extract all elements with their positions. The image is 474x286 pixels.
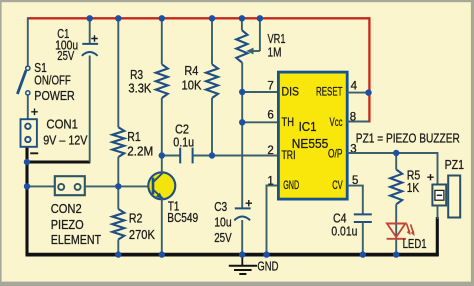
- svg-text:C3: C3: [214, 199, 227, 214]
- wire CV pin5 to C4: [347, 186, 363, 215]
- svg-text:1K: 1K: [407, 180, 420, 195]
- wire CON2 to base node: [85, 185, 119, 187]
- ground symbol GND: [229, 256, 257, 274]
- svg-text:3.3K: 3.3K: [128, 81, 151, 96]
- node TH junction: [239, 119, 245, 125]
- node CON2 junction: [24, 183, 30, 189]
- svg-text:CV: CV: [332, 178, 343, 192]
- wire R4 bottom lead to TRI node: [211, 98, 213, 156]
- potentiometer VR1 1M: [236, 30, 247, 62]
- svg-text:ELEMENT: ELEMENT: [51, 232, 102, 247]
- svg-text:25V: 25V: [214, 230, 232, 245]
- svg-text:PIEZO: PIEZO: [51, 217, 84, 232]
- wire R1 bottom lead to base node: [117, 157, 119, 186]
- wire R5 to LED1 to ground bus: [395, 204, 397, 255]
- frame border strips: [0, 0, 474, 2]
- capacitor C3 10u 25V electrolytic: [234, 200, 252, 220]
- svg-text:ON/OFF: ON/OFF: [34, 73, 71, 88]
- capacitor C2 0.1u: [161, 148, 278, 164]
- svg-text:IC1: IC1: [299, 119, 317, 134]
- svg-text:Vcc: Vcc: [330, 115, 343, 129]
- node T1 base junction: [115, 183, 121, 189]
- wire C1 top lead from +V bus: [89, 18, 91, 44]
- svg-text:CON1: CON1: [46, 117, 78, 132]
- resistor R2 270K: [112, 209, 124, 240]
- node ground bus junctions: [115, 251, 121, 257]
- svg-text:2.2M: 2.2M: [127, 143, 153, 158]
- svg-text:TRI: TRI: [282, 148, 296, 162]
- svg-text:R2: R2: [129, 210, 143, 225]
- wire C1 bottom lead: [89, 56, 91, 163]
- wire DIS pin7 row: [242, 91, 279, 93]
- resistor R5 1K: [395, 153, 397, 170]
- wire TH pin6 row: [242, 121, 279, 123]
- connector CON2 piezo element input: [55, 176, 85, 195]
- svg-text:CON2: CON2: [51, 201, 82, 216]
- svg-text:R4: R4: [184, 63, 198, 78]
- svg-text:270K: 270K: [129, 227, 155, 242]
- wire T1 collector to node: [161, 156, 163, 174]
- svg-text:1M: 1M: [268, 45, 282, 60]
- svg-text:2: 2: [267, 145, 273, 157]
- connector CON1 9V-12V battery input: [21, 109, 39, 154]
- resistor R4 10K: [206, 64, 218, 98]
- LED LED1 red: [387, 224, 415, 239]
- svg-text:BC549: BC549: [167, 210, 198, 225]
- capacitor C1 100u 25V electrolytic: [82, 35, 98, 56]
- svg-text:NE555: NE555: [292, 136, 329, 151]
- svg-text:4: 4: [351, 81, 358, 93]
- wire Vcc pin8 stub: [347, 121, 369, 123]
- wire R3 bottom lead to T1 collector node: [161, 98, 163, 156]
- wire R4 top lead from +V bus: [211, 18, 213, 64]
- svg-text:GND: GND: [283, 178, 299, 192]
- svg-text:6: 6: [267, 110, 273, 122]
- svg-text:O/P: O/P: [328, 147, 343, 161]
- node R4/C2 junction: [209, 152, 215, 158]
- wire VR1 bottom through DIS and TH nodes to C3: [241, 62, 243, 208]
- svg-text:VR1: VR1: [268, 31, 286, 46]
- svg-text:POWER: POWER: [34, 88, 75, 103]
- capacitor C4 0.01u: [354, 214, 372, 222]
- svg-text:1: 1: [267, 175, 273, 187]
- wire VR1 top lead from +V bus: [241, 18, 243, 30]
- svg-text:PZ1: PZ1: [445, 157, 465, 172]
- resistor R1 2.2M: [112, 127, 124, 157]
- svg-text:LED1: LED1: [403, 236, 427, 251]
- svg-text:10u: 10u: [214, 215, 232, 230]
- wire C3 bottom lead to ground bus: [241, 220, 243, 255]
- svg-text:10K: 10K: [182, 78, 202, 93]
- wire R3 top lead from +V bus: [161, 18, 163, 64]
- wire ground bus to CON2: [27, 185, 55, 187]
- wire O/P pin3 to PZ1: [347, 153, 438, 185]
- wire GND pin1 row: [267, 186, 279, 256]
- wire RESET pin4 to +V: [347, 92, 369, 94]
- svg-text:0.1u: 0.1u: [173, 134, 194, 149]
- wire PZ1 bottom lead: [437, 206, 439, 220]
- wire R1 top lead from +V bus: [117, 18, 119, 127]
- svg-text:PZ1 = PIEZO BUZZER: PZ1 = PIEZO BUZZER: [356, 130, 460, 145]
- transistor T1 BC549 NPN: [148, 172, 175, 199]
- wire R2 leads: [117, 186, 119, 209]
- switch S1 ON/OFF POWER: [17, 66, 29, 95]
- svg-text:9V – 12V: 9V – 12V: [43, 132, 88, 147]
- wire ground bus bottom (thick): [26, 147, 439, 256]
- svg-text:25V: 25V: [57, 48, 74, 63]
- svg-text:R1: R1: [127, 129, 141, 144]
- wire left branch from +V to S1: [27, 18, 29, 67]
- node DIS junction: [239, 89, 245, 95]
- wire base node to T1: [118, 185, 152, 187]
- node +V bus junctions: [87, 15, 93, 21]
- op-amp timer IC1 NE555: [278, 72, 347, 199]
- svg-text:RESET: RESET: [316, 85, 343, 99]
- wire T1 emitter to ground bus: [161, 199, 163, 256]
- svg-text:DIS: DIS: [282, 85, 300, 99]
- svg-text:GND: GND: [257, 260, 278, 274]
- svg-text:7: 7: [267, 80, 273, 92]
- piezo buzzer PZ1: [427, 174, 460, 218]
- wire +V red supply bus top: [27, 18, 369, 122]
- resistor R3 3.3K: [156, 64, 168, 98]
- node O/P junction: [393, 150, 399, 156]
- svg-text:TH: TH: [282, 115, 295, 129]
- node T1 collector junction: [159, 152, 165, 158]
- svg-text:0.01u: 0.01u: [331, 224, 357, 239]
- node RESET junction: [365, 89, 371, 95]
- wire S1 to CON1: [27, 95, 29, 120]
- node CON1 minus junction: [24, 159, 30, 165]
- wire C4 bottom lead to ground bus: [362, 222, 364, 255]
